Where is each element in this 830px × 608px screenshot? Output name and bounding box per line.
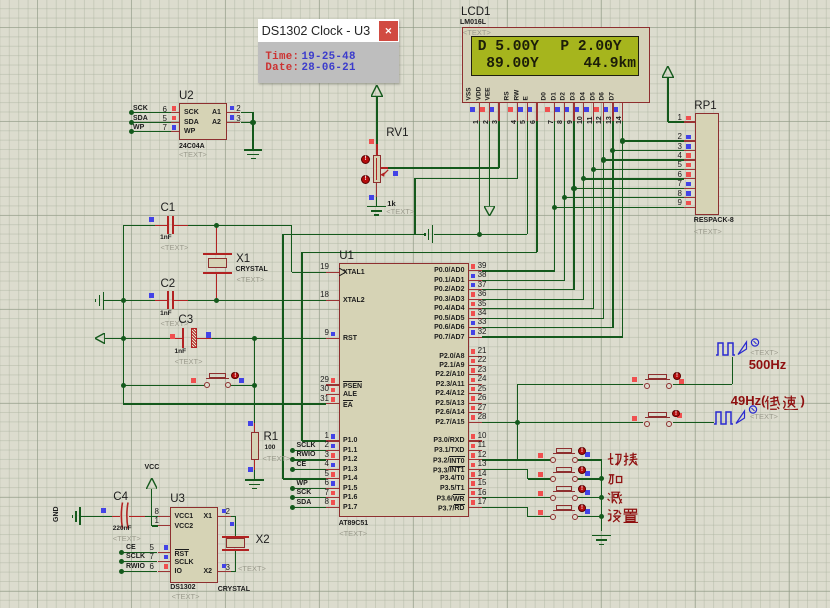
wire U2 A1 to ground trunk [241,112,254,113]
wire U1 P0.2 to D2 [482,289,575,290]
U1 pin 34 P0.5/AD5 [469,318,482,319]
power terminal arrow VCC [146,478,158,490]
wire net CE to U1 [292,469,325,470]
wire LCD D1 vertical [564,121,565,280]
wire P3.6 row to button 3 [482,497,551,498]
wire ground row left of terminal [415,234,424,235]
U1 pin 2 P1.1 [326,450,339,451]
wire D6 to RP1 pin 3 [613,150,685,151]
chip U3 DS1302 [170,507,218,583]
wire net WP to U2 [132,131,171,132]
U1 pin 14 P3.4/T0 [469,478,482,479]
U1 pin 37 P0.2/AD2 [469,289,482,290]
U3 pin 2 X1 stub [218,516,231,517]
wire LCD D5 vertical [603,121,604,318]
wire RS trunk vertical [282,234,283,479]
net label CE [297,461,307,468]
signal generator 49Hz [712,405,762,426]
RV1 blue marker [393,171,398,176]
label qiehuan (switch) [607,452,638,467]
wire D4 to RP1 pin 5 [594,169,685,170]
wire P2.7 to 49Hz row [482,422,643,423]
power terminal arrow RP1 [662,66,674,78]
U1 pin 18 XTAL2 [326,300,339,301]
junction D7 / RP1 row [620,138,625,143]
wire U1 P0.6 to D6 [482,327,614,328]
RV1 wiper arrow [380,169,389,178]
LCD pin 4 RS [504,91,511,100]
power terminal arrow above RV1 [371,85,383,97]
wire 500Hz row [518,384,644,385]
net label RWIO [297,451,316,458]
terminal arrow C3 row [95,333,105,344]
U1 pin 6 P1.5 [326,488,339,489]
wire P3.2 row to button 1 [482,459,551,460]
wire net CE to U3 [121,552,157,553]
wire C2 to XTAL2 [188,300,325,301]
U1 pin 26 P2.5/A13 [469,403,482,404]
wire LCD RS down [517,121,518,178]
popup time row [265,52,299,63]
RP1 pin 3 stub [684,150,695,151]
wire RS vertical jog [414,178,415,234]
wire P3.3 to button 2 jog [482,469,528,470]
junction D3 / RP1 row [581,176,586,181]
U1 pin 15 P3.5/T1 [469,488,482,489]
wire button set right [578,516,602,517]
LCD text line 2 [486,57,539,72]
ground under RV1 [367,206,386,208]
wire LCD E down [536,121,537,252]
wire D0 to RP1 pin 9 [555,207,685,208]
net label SCLK [297,442,316,449]
U2 pin 3 A2 stub [227,122,240,123]
junction D5 / RP1 row [601,157,606,162]
wire LCD VSS down [479,121,480,234]
U3 pin 1 VCC2 stub [158,525,171,526]
LCD screen [471,36,639,76]
LCD pin 3 VEE [486,87,493,100]
wire LCD D2 vertical [573,121,574,290]
junction VSS ground row [477,232,482,237]
junction C3 right RST [252,336,257,341]
junction reset row [121,383,126,388]
wire net RWIO to U1 [292,459,325,460]
wire LCD D7 vertical [622,121,623,337]
power-down arrow terminal VDD [484,206,495,216]
LCD pin 6 E [524,96,531,100]
wire U2 A2 to ground trunk [241,122,254,123]
wire U1 P0.0 to D0 [482,270,555,271]
U3 pin 3 X2 stub [218,571,231,572]
popup title [262,25,371,38]
wire button minus right [578,497,602,498]
junction C3 left [121,336,126,341]
net label SCK [133,105,148,112]
U1 pin 21 P2.0/A8 [469,356,482,357]
RV1 error marker 2 [361,175,370,184]
U1 pin 22 P2.1/A9 [469,365,482,366]
wire U3 X2 to crystal [231,571,236,572]
wire net SCK to U2 [132,112,171,113]
junction D2 / RP1 row [571,186,576,191]
wire RV1 wiper to LCD VEE [381,167,388,168]
RP1 pin 7 stub [684,188,695,189]
wire C3 to RST [212,338,326,339]
U1 pin 33 P0.6/AD6 [469,327,482,328]
label VCC [145,464,160,471]
LCD pin 10 D3 [571,92,578,100]
net label CE [126,544,136,551]
net label WP [133,124,144,131]
wire LCD D4 vertical [593,121,594,309]
wire net RWIO to U3 [121,571,157,572]
U1 pin 13 P3.3/INT1 [469,469,482,470]
signal generator 500Hz [714,337,764,357]
wire LCD RW down [527,121,528,234]
U2 pin 7 WP stub [171,131,180,132]
junction D6 / RP1 row [610,148,615,153]
label jian (minus) [607,490,623,505]
popup date row [265,63,299,74]
wire LCD D6 vertical [612,121,613,328]
left trunk vertical [123,225,124,404]
wire button trunk vertical [601,460,602,532]
wire net SCLK to U1 [292,450,325,451]
wire RST-R1 trunk [254,338,255,432]
junction D4 / RP1 row [591,167,596,172]
net label RWIO [126,563,145,570]
LCD1 label [461,7,490,19]
wire D3 to RP1 pin 6 [584,178,685,179]
U1 pin 3 P1.2 [326,459,339,460]
button add [550,476,556,482]
crystal X2 [222,536,249,538]
wire U1 P0.3 to D3 [482,299,584,300]
net label WP [297,480,308,487]
button minus [550,495,556,501]
RP1 pin 6 stub [684,178,695,179]
U1 pin 32 P0.7/AD7 [469,337,482,338]
junction C1 row X1 [214,223,219,228]
wire LCD D3 vertical [583,121,584,299]
wire C4 to U3 VCC1 [145,516,158,517]
wire R1 to ground [254,460,255,479]
LCD text line 1 [478,40,539,55]
LCD pin 7 D0 [541,92,548,100]
wire RV1 to ground [376,197,377,206]
wire D2 to RP1 pin 7 [574,188,685,189]
wire 500Hz button right [673,384,733,385]
U1 pin 5 P1.4 [326,478,339,479]
wire U3 X1 to crystal [231,516,236,517]
label shezhi (set) [607,508,638,523]
ground under U2 [244,149,263,151]
U1 pin 35 P0.4/AD4 [469,308,482,309]
capacitor C4 electrolytic [113,492,128,504]
wire net SDA to U2 [132,122,171,123]
RV1 value 1k [387,200,395,208]
reset button [123,385,203,386]
wire D5 to RP1 pin 4 [603,159,684,160]
U3 pin 5 RST stub [158,552,171,553]
U1 pin 30 ALE [326,394,339,395]
wire RS row to trunk [283,234,415,235]
wire net SCLK to U3 [121,561,157,562]
wire XTAL1 horizontal [292,272,326,273]
RP1 pin 1 stub [684,121,695,122]
U3 pin 6 IO stub [158,571,171,572]
ground under buttons [592,535,611,537]
button 49Hz [644,421,650,427]
U1 pin 19 XTAL1 [326,272,339,273]
wire EA row [123,403,325,404]
U1 pin 11 P3.1/TXD [469,450,482,451]
junction P2.7 trunk [515,420,520,425]
RP1 pin 4 stub [684,159,695,160]
wire net SDA to U1 [292,507,325,508]
wire XTAL1 trunk vertical [291,225,292,272]
wire button switch right [578,459,602,460]
junction U2 right [250,120,255,125]
net label SDA [133,115,148,122]
ground under R1 [245,479,264,481]
resistor R1 [251,432,259,460]
wire 500Hz generator vertical [732,357,733,385]
LCD pin 13 D6 [600,92,607,100]
U1 pin 29 PSEN [326,384,339,385]
LCD pin 2 VDD [476,86,483,100]
U1 pin 7 P1.6 [326,497,339,498]
wire net SCK to U1 [292,497,325,498]
RP1 pin 9 stub [684,207,695,208]
RV1 bottom stub [376,183,377,197]
wire LCD VEE down [498,121,499,168]
button set [550,514,556,520]
wire U1 P0.1 to D1 [482,280,565,281]
U1 pin 12 P3.2/INT0 [469,459,482,460]
U1 pin 39 P0.0/AD0 [469,270,482,271]
ground terminal C2 row [103,292,105,310]
wire RS horizontal [415,178,518,179]
net label SDA [297,499,312,506]
wire net WP to U1 [292,488,325,489]
net label SCLK [126,553,145,560]
resistor pack RP1 [694,101,716,113]
U1 pin 25 P2.4/A12 [469,393,482,394]
label 49Hz(low speed) [731,394,766,407]
label GND rotated [53,506,60,522]
junction D0 / RP1 row [552,205,557,210]
wire RV1 top [376,96,377,144]
U1 pin 4 P1.3 [326,469,339,470]
wire reset button right [231,385,255,386]
inline ground terminal [432,225,434,243]
capacitor C3 [178,315,193,327]
U2 pin 2 A1 stub [227,112,240,113]
U3 pin 8 VCC1 stub [158,516,171,517]
wire U1 P0.4 to D4 [482,308,594,309]
wire VCC stem [151,489,152,526]
wire ground row right [434,234,528,235]
net label SCK [297,489,312,496]
RP1 pin 2 stub [684,140,695,141]
wire LCD D0 vertical [554,121,555,271]
U2 pin 6 SCK stub [171,112,180,113]
capacitor C2 [161,279,176,291]
U3 pin 7 SCLK stub [158,561,171,562]
U1 pin 27 P2.6/A14 [469,412,482,413]
U1 pin 10 P3.0/RXD [469,440,482,441]
LCD pin 8 D1 [551,92,558,100]
wire RP1 pin1 vertical [667,78,668,122]
wire RP1 pin1 horizontal [668,121,685,122]
ground terminal C4 row [79,507,81,525]
wire RS trunk to P1.4 [283,478,326,479]
U1 pin 17 P3.7/RD [469,507,482,508]
U1 pin 1 P1.0 [326,440,339,441]
U1 pin 16 P3.6/WR [469,497,482,498]
crystal X1 [216,225,217,253]
junction D1 / RP1 row [562,195,567,200]
capacitor C1 [161,203,176,215]
LCD pin 1 VSS [466,87,473,100]
potentiometer RV1 [386,128,408,140]
U1 pin 31 EA [326,403,339,404]
popup window DS1302 Clock - U3 [258,19,399,83]
U1 pin 23 P2.2/A10 [469,374,482,375]
U1 pin 8 P1.7 [326,507,339,508]
RV1 error marker 1 [361,155,370,164]
wire E row horizontal [302,252,537,253]
label jia (add) [608,471,623,486]
U1 pin 24 P2.3/A11 [469,384,482,385]
button switch [550,457,556,463]
RP1 pin 8 stub [684,197,695,198]
wire E trunk vertical [301,252,302,441]
LCD pin 12 D5 [590,92,597,100]
wire D1 to RP1 pin 8 [564,197,684,198]
wire U1 P0.7 to D7 [482,336,623,337]
U1 pin 9 RST [326,338,339,339]
wire E trunk to P1.0 [302,440,326,441]
wire VCC to U3 VCC2 [152,525,158,526]
wire trunk P2.7 vertical [517,384,518,460]
RP1 pin 5 stub [684,169,695,170]
LCD pin 14 D7 [610,92,617,100]
junction C2 left [121,298,126,303]
U1 pin 28 P2.7/A15 [469,422,482,423]
wire U1 P0.5 to D5 [482,318,604,319]
popup close button [379,21,398,41]
wire D7 to RP1 pin 2 [623,140,685,141]
LCD pin 9 D2 [561,92,568,100]
U2 pin 5 SDA stub [171,122,180,123]
junction C2 X1 [214,298,219,303]
LCD LM016L module [462,27,650,103]
label 500Hz [749,358,787,371]
wire C1 to XTAL1 trunk [188,225,292,226]
wire button add right [578,478,602,479]
wire LCD VDD down [489,121,490,206]
U1 pin 38 P0.1/AD1 [469,280,482,281]
microcontroller U1 AT89C51 [339,263,469,517]
U1 pin 36 P0.3/AD3 [469,299,482,300]
wire P3.7 to button 4 jog [482,507,528,508]
wire vertical U2 right [252,113,253,149]
chip U2 24C04A [179,103,227,140]
button 500Hz [644,383,650,389]
LCD pin 11 D4 [580,92,587,100]
LCD pin 5 RW [514,89,521,100]
wire 49Hz button right [673,422,714,423]
junction button rows [599,476,604,481]
